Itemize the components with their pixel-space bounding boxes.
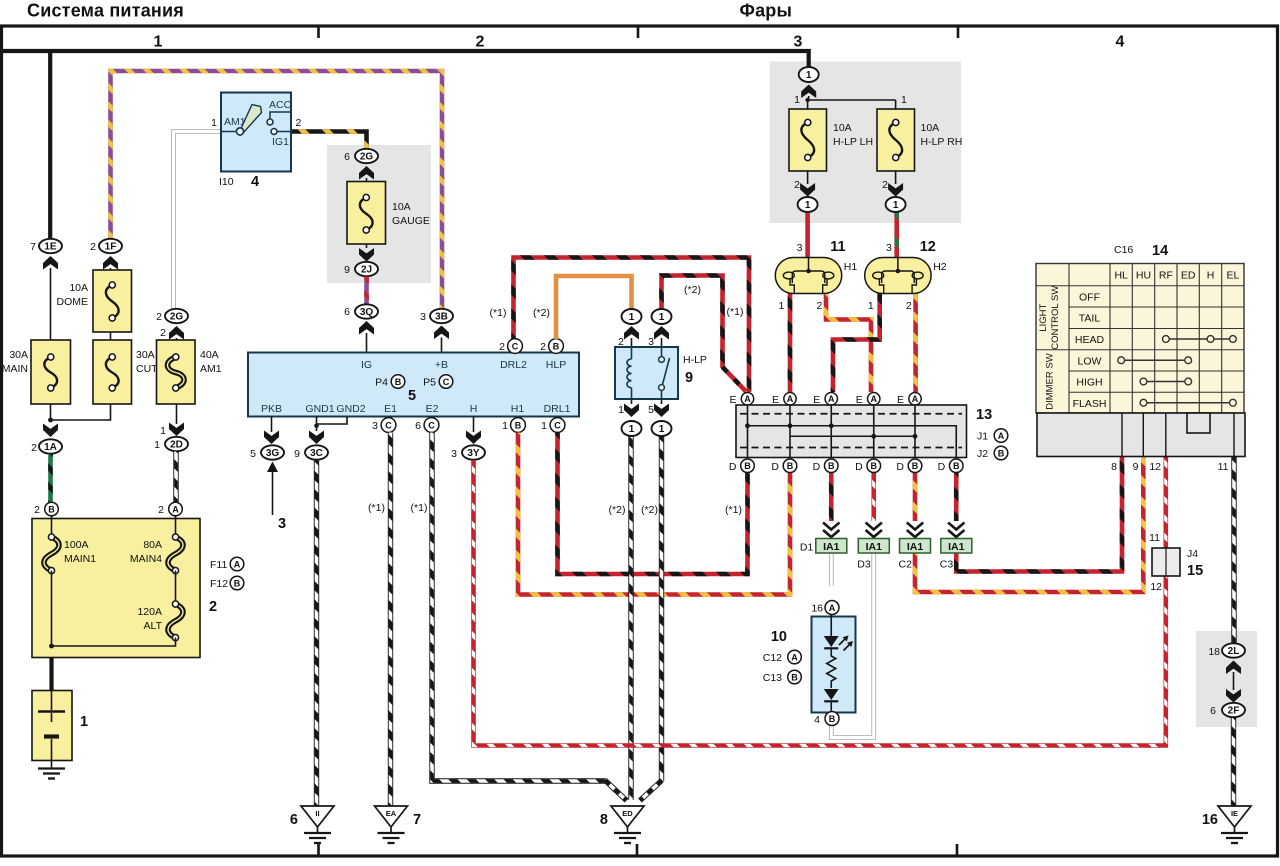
svg-text:(*1): (*1) xyxy=(490,307,507,319)
svg-text:2: 2 xyxy=(31,442,37,454)
GND1/GND2 stubs to 3C xyxy=(309,417,347,445)
svg-text:2: 2 xyxy=(158,504,164,516)
svg-text:1: 1 xyxy=(868,300,874,312)
pin 2 label xyxy=(296,117,302,129)
label pin 2 of A xyxy=(158,504,164,516)
fuse 10A DOME xyxy=(93,270,132,332)
section number 3 xyxy=(794,34,803,51)
arrow below 3B xyxy=(434,326,449,353)
relay pin3 top connector 1 xyxy=(652,309,672,324)
switch contacts HEAD row xyxy=(1163,336,1237,343)
label pin 5 of 3G xyxy=(250,448,256,460)
svg-text:B: B xyxy=(744,461,751,471)
arrow below 1E xyxy=(43,256,58,340)
wire black/white switch pin 11 to 2L xyxy=(1231,457,1236,644)
battery 1 xyxy=(32,691,72,761)
svg-text:P5: P5 xyxy=(423,377,436,389)
connector C2 IA1 xyxy=(899,523,931,571)
connector 1A xyxy=(39,439,62,453)
module 5 pin labels bottom xyxy=(261,403,571,415)
svg-text:AM1: AM1 xyxy=(200,363,222,375)
lamp H2 labels xyxy=(868,239,947,312)
svg-text:IA1: IA1 xyxy=(948,541,965,553)
svg-text:3: 3 xyxy=(451,448,457,460)
svg-text:(*2): (*2) xyxy=(641,504,658,516)
svg-text:1: 1 xyxy=(618,404,624,416)
svg-text:1E: 1E xyxy=(44,242,57,253)
svg-text:2: 2 xyxy=(209,599,217,615)
wire red/white 3Y (H) to J4 pin 12 xyxy=(474,460,1166,746)
arrow below 2G with pin 2 xyxy=(160,326,184,340)
svg-text:H1: H1 xyxy=(844,261,858,273)
svg-text:12: 12 xyxy=(1150,581,1162,593)
fuse 10A H-LP LH xyxy=(789,109,827,171)
svg-text:9: 9 xyxy=(685,370,693,386)
connector 2B above HLP xyxy=(540,341,546,353)
svg-text:EL: EL xyxy=(1226,270,1239,282)
svg-text:B: B xyxy=(48,504,55,514)
svg-text:30A: 30A xyxy=(136,349,155,361)
svg-text:ED: ED xyxy=(622,809,633,818)
wire: white wire AM1 to 2G xyxy=(174,132,222,310)
connector A (fusible link box) xyxy=(169,502,183,516)
label pin 2 of 2G xyxy=(156,311,162,323)
svg-text:HIGH: HIGH xyxy=(1076,377,1102,389)
PKB stub to 3G xyxy=(264,417,279,445)
arrows below fuses xyxy=(800,171,903,197)
label pin 1 of 2D xyxy=(154,439,160,451)
svg-text:9: 9 xyxy=(344,264,350,276)
wire red/violet 2J to 3Q xyxy=(364,277,369,305)
headlamp H2 (12) xyxy=(865,258,931,294)
svg-text:2: 2 xyxy=(160,327,166,339)
svg-text:H: H xyxy=(470,403,478,415)
svg-text:1: 1 xyxy=(541,420,547,432)
unit 10 LED and resistor xyxy=(824,615,853,713)
svg-text:2J: 2J xyxy=(361,265,372,276)
svg-text:6: 6 xyxy=(1210,705,1216,717)
svg-text:H-LP LH: H-LP LH xyxy=(833,136,873,148)
wire orange HLP to relay pin 2 xyxy=(556,276,632,339)
svg-text:ACC: ACC xyxy=(269,99,292,111)
arrow below 1F xyxy=(103,256,118,270)
svg-text:13: 13 xyxy=(976,407,992,423)
svg-text:(*2): (*2) xyxy=(609,504,626,516)
svg-text:4: 4 xyxy=(814,714,820,726)
pin 1 labels of fuses xyxy=(794,94,907,106)
switch contacts HIGH row xyxy=(1140,378,1192,385)
svg-text:B: B xyxy=(787,461,794,471)
label pin 7 of 1E xyxy=(30,241,36,253)
svg-text:B: B xyxy=(912,461,919,471)
svg-text:6: 6 xyxy=(344,151,350,163)
relay pin2 top connector 1 xyxy=(622,309,642,324)
svg-text:6: 6 xyxy=(344,306,350,318)
wire red/white switch pin 12 to J4 xyxy=(1164,457,1169,549)
switch 14 row labels xyxy=(1073,292,1107,410)
label 11 above J4 xyxy=(1149,532,1160,544)
svg-text:9: 9 xyxy=(1133,461,1139,473)
svg-text:2L: 2L xyxy=(1228,646,1240,657)
svg-text:1: 1 xyxy=(659,312,665,323)
svg-text:C: C xyxy=(554,420,561,430)
module 5 pin labels top xyxy=(361,359,566,371)
switch contacts LOW row xyxy=(1118,357,1192,364)
connector B (fusible link box) xyxy=(45,502,59,516)
label pin 9 of 3C xyxy=(294,448,300,460)
label pin 3 of 3Y xyxy=(451,448,457,460)
fusible link box 2 xyxy=(32,519,200,658)
svg-text:J4: J4 xyxy=(1187,548,1198,560)
reference arrow to section 3 xyxy=(267,462,278,516)
svg-text:10A: 10A xyxy=(833,122,852,134)
svg-text:Фары: Фары xyxy=(740,1,793,21)
link 80A MAIN4 xyxy=(168,516,183,574)
svg-text:8: 8 xyxy=(1111,461,1117,473)
svg-text:A: A xyxy=(791,652,798,662)
svg-text:10A: 10A xyxy=(69,282,88,294)
svg-text:B: B xyxy=(234,578,241,588)
arrows into relay with pin numbers 2,3 xyxy=(618,326,669,348)
svg-text:B: B xyxy=(871,461,878,471)
svg-text:3C: 3C xyxy=(310,448,323,459)
ground 6 II xyxy=(301,806,334,843)
wire black/white relay pin 5 to ground 8 (*2) xyxy=(640,436,662,801)
svg-text:2: 2 xyxy=(882,179,888,191)
wire black/white relay pin 1 to ground 8 (*2) xyxy=(628,436,633,801)
svg-text:A: A xyxy=(172,504,179,514)
svg-text:DIMMER SW: DIMMER SW xyxy=(1045,353,1056,410)
svg-text:40A: 40A xyxy=(200,349,219,361)
svg-text:3Y: 3Y xyxy=(467,448,480,459)
connector 1E xyxy=(39,239,62,253)
svg-text:OFF: OFF xyxy=(1079,292,1100,304)
svg-text:DOME: DOME xyxy=(57,296,89,308)
svg-text:(*2): (*2) xyxy=(533,307,550,319)
svg-text:5: 5 xyxy=(648,404,654,416)
svg-text:DRL1: DRL1 xyxy=(544,403,571,415)
wire MAIN4 to ALT xyxy=(175,571,177,601)
J/B dashed connector planes xyxy=(740,414,962,448)
svg-text:D: D xyxy=(896,461,904,473)
wire red/black C3 to switch pin 8 xyxy=(956,457,1122,572)
svg-text:E1: E1 xyxy=(384,403,397,415)
svg-text:2G: 2G xyxy=(170,312,184,323)
svg-text:HU: HU xyxy=(1136,270,1151,282)
svg-text:1: 1 xyxy=(211,117,217,129)
svg-text:A: A xyxy=(744,394,751,404)
svg-text:IG1: IG1 xyxy=(272,136,289,148)
svg-text:H2: H2 xyxy=(933,261,947,273)
connector C3 IA1 xyxy=(940,523,972,571)
connector 1 below H-LP RH fuse xyxy=(886,197,906,212)
svg-text:MAIN4: MAIN4 xyxy=(130,553,162,565)
svg-text:2: 2 xyxy=(794,179,800,191)
svg-text:15: 15 xyxy=(1187,563,1203,579)
label pin 2 of 1F xyxy=(90,241,96,253)
svg-text:1A: 1A xyxy=(44,442,57,453)
svg-text:5: 5 xyxy=(408,388,416,404)
section number 4 xyxy=(1116,34,1125,51)
svg-text:D: D xyxy=(813,461,821,473)
wire: battery feed bus (thick black) xyxy=(3,51,809,68)
wire: feed drop to 1E xyxy=(48,51,52,239)
svg-text:D: D xyxy=(771,461,779,473)
section number 1 xyxy=(154,34,163,51)
svg-text:3: 3 xyxy=(420,311,426,323)
svg-text:2: 2 xyxy=(540,341,546,353)
svg-text:3B: 3B xyxy=(435,312,448,323)
module 5 connector refs P4 P5 xyxy=(375,377,388,389)
svg-text:2: 2 xyxy=(90,241,96,253)
svg-text:10: 10 xyxy=(771,629,787,645)
connector 1 below H-LP LH fuse xyxy=(798,197,818,212)
svg-text:LIGHT: LIGHT xyxy=(1038,304,1049,332)
svg-text:1: 1 xyxy=(659,424,665,435)
svg-text:3: 3 xyxy=(278,516,286,532)
svg-text:3: 3 xyxy=(797,242,803,254)
svg-text:6: 6 xyxy=(415,420,421,432)
svg-text:C: C xyxy=(385,420,392,430)
svg-text:2: 2 xyxy=(34,504,40,516)
svg-text:D3: D3 xyxy=(857,559,871,571)
svg-text:GAUGE: GAUGE xyxy=(392,215,430,227)
svg-text:C3: C3 xyxy=(940,559,954,571)
switch pin numbers 8 9 12 11 xyxy=(1111,461,1228,473)
svg-text:120A: 120A xyxy=(137,606,162,618)
title: Фары xyxy=(740,1,793,21)
svg-text:H: H xyxy=(1207,270,1215,282)
svg-text:11: 11 xyxy=(1218,461,1229,473)
arrow below 3Q xyxy=(359,321,374,353)
wire red H-LP LH fuse to lamp H1 xyxy=(805,212,810,259)
label pin 9 of 2J xyxy=(344,264,350,276)
svg-text:B: B xyxy=(998,448,1005,458)
link 100A MAIN1 xyxy=(44,516,59,574)
svg-text:18: 18 xyxy=(1208,646,1220,658)
svg-text:D: D xyxy=(938,461,946,473)
svg-text:6: 6 xyxy=(290,812,298,828)
connector J4 xyxy=(1152,548,1180,576)
ground 8 ED xyxy=(611,806,644,843)
svg-text:14: 14 xyxy=(1152,243,1168,259)
connector 3Q xyxy=(355,304,378,318)
svg-text:H-LP RH: H-LP RH xyxy=(921,136,963,148)
variant labels (*1)(*2) top row xyxy=(490,284,744,319)
wire green/black 1A to B xyxy=(48,454,53,502)
label 4 pin B xyxy=(814,714,820,726)
variant labels (*1)(*2) lower row xyxy=(368,502,742,516)
svg-text:5: 5 xyxy=(250,448,256,460)
svg-text:(*1): (*1) xyxy=(725,504,742,516)
svg-text:10A: 10A xyxy=(392,201,411,213)
unit 10 box xyxy=(812,617,856,713)
svg-text:3: 3 xyxy=(886,242,892,254)
connector 1F xyxy=(99,239,122,253)
svg-text:B: B xyxy=(828,461,835,471)
bold 3 reference xyxy=(278,516,286,532)
svg-text:1: 1 xyxy=(778,300,784,312)
arrow into 2D with pin 1 xyxy=(160,423,184,438)
ignition switch I10 box xyxy=(221,93,291,172)
module 5 bottom connector circles xyxy=(372,420,378,432)
wire red/black lamp H2 pin1 to E(A)3 xyxy=(833,294,880,393)
svg-text:(*1): (*1) xyxy=(727,306,744,318)
junction MAIN1/ALT xyxy=(49,571,175,649)
relay pin5 bottom connector 1 xyxy=(652,421,672,436)
svg-text:B: B xyxy=(791,672,798,682)
svg-text:1: 1 xyxy=(893,200,899,211)
component number 2 xyxy=(209,599,217,615)
wire black/white E2 to ground 8 ED xyxy=(432,433,627,801)
rotated switch section labels xyxy=(1038,286,1061,410)
switch 14 connector housing xyxy=(1037,413,1245,457)
svg-text:11: 11 xyxy=(830,239,845,255)
svg-text:A: A xyxy=(828,394,835,404)
wire red/black DRL1 to D(B)1 xyxy=(558,433,748,575)
fuse 10A H-LP RH xyxy=(877,109,915,171)
svg-text:2: 2 xyxy=(816,300,822,312)
label 13 J1 J2 xyxy=(976,407,992,423)
ignition switch internals xyxy=(221,99,292,148)
J/B internal verticals xyxy=(748,405,916,458)
svg-text:4: 4 xyxy=(1116,34,1125,51)
connector 2L xyxy=(1222,643,1245,657)
svg-text:GND2: GND2 xyxy=(336,403,365,415)
svg-text:C16: C16 xyxy=(1114,244,1133,256)
svg-text:ALT: ALT xyxy=(144,620,163,632)
arrow below connector 1 xyxy=(801,85,895,110)
svg-text:HEAD: HEAD xyxy=(1075,334,1105,346)
svg-text:FLASH: FLASH xyxy=(1073,398,1107,410)
svg-text:A: A xyxy=(912,394,919,404)
relay 9 H-LP box xyxy=(615,347,678,399)
labels F11 F12 2 xyxy=(210,559,227,571)
svg-text:IA1: IA1 xyxy=(866,541,883,553)
wire GAUGE to 2J xyxy=(359,244,374,262)
svg-text:A: A xyxy=(871,394,878,404)
relay coil xyxy=(627,347,632,399)
wire black/white GND to ground 6 II xyxy=(314,460,319,806)
svg-text:1: 1 xyxy=(502,420,508,432)
switch contacts FLASH row xyxy=(1140,399,1236,406)
svg-text:7: 7 xyxy=(413,812,421,828)
junction block 13 box xyxy=(736,405,967,458)
label pin 2 of 1A xyxy=(31,442,37,454)
svg-text:12: 12 xyxy=(920,239,936,255)
E1 stub xyxy=(390,417,392,419)
wire: MAIN+CUT junction to 1A xyxy=(48,404,110,422)
label 16 pin A xyxy=(811,603,823,615)
label 18 pin of 2L xyxy=(1208,646,1220,658)
connector 2G pin6 xyxy=(355,149,378,163)
wire: black/yellow IG1 to 2G(6) xyxy=(291,132,367,150)
gray zone: 2L/2F connector xyxy=(1196,631,1257,727)
svg-text:(*2): (*2) xyxy=(684,284,701,296)
wire red/black DRL2 to E(A)1 (*1) xyxy=(514,258,750,393)
svg-text:F12: F12 xyxy=(210,578,228,590)
labels J4 15 xyxy=(1187,548,1198,560)
svg-text:IA1: IA1 xyxy=(823,541,840,553)
connector D1 IA1 xyxy=(800,523,847,554)
svg-text:C2: C2 xyxy=(899,559,913,571)
fuse 30A CUT xyxy=(93,340,132,404)
svg-text:(*1): (*1) xyxy=(411,502,428,514)
wire: purple/yellow ACC feed 1F to 3B xyxy=(111,71,443,310)
switch 14 labels C16 xyxy=(1114,244,1133,256)
label pin 6 of 3Q xyxy=(344,306,350,318)
svg-text:1: 1 xyxy=(154,34,163,51)
connector 3Y xyxy=(462,445,485,459)
svg-text:C: C xyxy=(428,420,435,430)
svg-text:3G: 3G xyxy=(266,448,280,459)
svg-text:DRL2: DRL2 xyxy=(500,359,527,371)
wire 40A AM1 to 2D xyxy=(176,404,178,424)
svg-text:2G: 2G xyxy=(360,152,374,163)
wire red/yellow lamp H1 pin2 to E(A)4 xyxy=(826,294,871,393)
svg-text:EA: EA xyxy=(386,809,397,818)
svg-text:II: II xyxy=(315,809,319,818)
svg-text:2: 2 xyxy=(476,34,485,51)
svg-text:B: B xyxy=(515,420,522,430)
component number 4 xyxy=(251,174,259,190)
svg-text:A: A xyxy=(234,559,241,569)
ground 16 IE xyxy=(1218,806,1251,843)
module 5 box xyxy=(248,353,579,417)
connector 2G pin2 xyxy=(165,309,188,323)
svg-text:2: 2 xyxy=(156,311,162,323)
wire white D1 to unit 10 pin A xyxy=(829,553,834,587)
connector 2F xyxy=(1222,703,1245,717)
svg-text:B: B xyxy=(953,461,960,471)
svg-text:I10: I10 xyxy=(219,176,234,188)
svg-text:CONTROL SW: CONTROL SW xyxy=(1050,286,1061,350)
wire red/yellow H1 to D(B)2 xyxy=(518,433,790,595)
svg-text:MAIN1: MAIN1 xyxy=(64,553,96,565)
component number 1 xyxy=(80,714,88,730)
arrows out of relay pins 1,5 xyxy=(618,399,669,417)
pin 2 labels of fuses xyxy=(794,179,888,191)
switch 14 table xyxy=(1036,264,1244,414)
gray zone: gauge fuse block xyxy=(327,145,431,283)
svg-text:IA1: IA1 xyxy=(907,541,924,553)
wire red/yellow C2 to switch pin 9 xyxy=(915,457,1143,593)
title: Система питания xyxy=(27,1,184,21)
connector D3 IA1 xyxy=(857,523,889,571)
svg-text:B: B xyxy=(553,341,560,351)
arrow below 2G(6) xyxy=(359,166,374,182)
svg-text:1: 1 xyxy=(794,94,800,106)
svg-text:TAIL: TAIL xyxy=(1079,313,1101,325)
J/B bus 1 xyxy=(745,423,956,457)
svg-text:Система питания: Система питания xyxy=(27,1,184,21)
svg-text:RF: RF xyxy=(1159,270,1173,282)
svg-text:1: 1 xyxy=(80,714,88,730)
lamp H1 labels xyxy=(778,239,857,312)
connector 1 above H-LP fuses xyxy=(799,67,819,82)
svg-text:E2: E2 xyxy=(426,403,439,415)
headlamp H1 (11) xyxy=(775,258,841,294)
svg-text:IE: IE xyxy=(1231,809,1238,818)
J/B bus 2 xyxy=(790,434,917,439)
svg-text:100A: 100A xyxy=(64,539,89,551)
svg-text:F11: F11 xyxy=(210,559,227,571)
wire white unit 10 pin B loop to D3 xyxy=(831,553,874,738)
svg-text:3: 3 xyxy=(372,420,378,432)
arrow into 1A xyxy=(43,424,58,438)
wire red/black lamp H1 pin1 to E(A)2 xyxy=(788,294,793,393)
wire black/white E1 to ground 7 EA xyxy=(388,433,393,807)
